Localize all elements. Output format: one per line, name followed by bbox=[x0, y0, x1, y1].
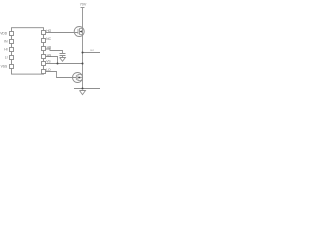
pin 11 LO box bbox=[42, 70, 46, 74]
wire HB to capacitor C1 bbox=[46, 49, 63, 54]
svg-text:VSS: VSS bbox=[1, 65, 8, 69]
pin 10 VS box bbox=[42, 62, 46, 66]
pin 9 HS box bbox=[42, 55, 46, 59]
svg-text:NC: NC bbox=[46, 37, 51, 41]
junction node: ground bbox=[82, 88, 84, 90]
pin 4 LI box bbox=[10, 56, 14, 60]
Q1 body arrow bbox=[80, 30, 82, 32]
svg-text:HB: HB bbox=[47, 45, 52, 49]
junction node: HS/VS bbox=[57, 63, 59, 65]
junction node: switch node bbox=[82, 63, 84, 65]
svg-text:IN: IN bbox=[4, 40, 8, 44]
capacitor C1 bbox=[60, 54, 66, 58]
supply rail bar 70V bbox=[81, 7, 85, 9]
wire half-bridge vertical bbox=[82, 8, 84, 89]
wire HS step-down bbox=[46, 57, 58, 64]
transistor Q2 low-side NMOS bbox=[73, 73, 83, 83]
svg-text:HI: HI bbox=[4, 48, 7, 52]
svg-text:out: out bbox=[90, 48, 94, 52]
ground symbol bottom bbox=[80, 91, 86, 95]
svg-text:HS: HS bbox=[47, 53, 52, 57]
wire output bbox=[83, 52, 101, 54]
pin 7 NC box bbox=[42, 39, 46, 43]
svg-text:VS: VS bbox=[46, 60, 51, 64]
junction node: output tap bbox=[82, 52, 84, 54]
svg-text:LO: LO bbox=[46, 68, 51, 72]
svg-text:LI: LI bbox=[5, 56, 8, 60]
Q2 body arrow bbox=[78, 76, 80, 78]
ground (signal) under C1 bbox=[60, 58, 66, 62]
wire LO to Q2 gate bbox=[46, 72, 77, 78]
transistor Q1 high-side NMOS bbox=[74, 27, 84, 37]
IC U1 body bbox=[12, 28, 44, 74]
svg-text:70V: 70V bbox=[80, 2, 87, 6]
svg-text:VDD: VDD bbox=[0, 32, 8, 36]
pin 5 VSS box bbox=[10, 65, 14, 69]
pin 8 HB box bbox=[42, 47, 46, 51]
svg-text:HO: HO bbox=[46, 29, 51, 33]
ground rail bottom bbox=[74, 88, 100, 90]
wire HO to Q1 gate bbox=[46, 32, 78, 34]
pin 2 IN box bbox=[10, 40, 14, 44]
pin 6 HO box bbox=[42, 31, 46, 35]
pin 3 HI box bbox=[10, 48, 14, 52]
wire VS to switch node bbox=[46, 63, 83, 65]
pin 1 VDD box bbox=[10, 32, 14, 36]
